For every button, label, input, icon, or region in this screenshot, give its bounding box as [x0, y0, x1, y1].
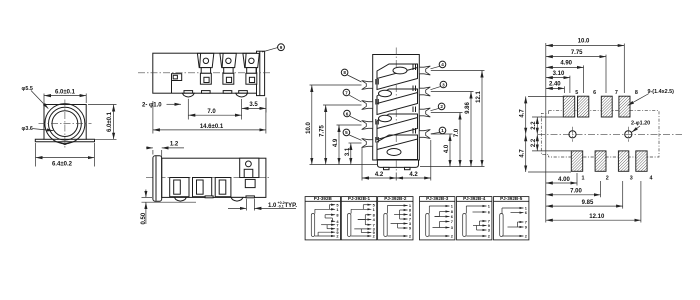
svg-text:2: 2	[440, 104, 443, 109]
svg-text:10.0: 10.0	[306, 122, 312, 134]
svg-text:10.0: 10.0	[578, 39, 590, 45]
pin 6 (left)	[362, 121, 373, 130]
label φ5.5 leader	[31, 91, 48, 109]
svg-text:4: 4	[441, 62, 444, 67]
svg-text:-0.1: -0.1	[278, 205, 284, 209]
dimension 4.90 line	[546, 66, 584, 68]
svg-text:PJ-392B-4: PJ-392B-4	[463, 196, 486, 201]
dimension 4.2 left line	[362, 177, 396, 179]
dimension 2.2 lower line	[536, 134, 538, 151]
dimension 6.0±0.1 top extension lines	[43, 94, 45, 104]
svg-text:2.40: 2.40	[549, 82, 561, 88]
svg-text:5: 5	[345, 130, 348, 135]
pin 8 (left)	[362, 81, 373, 90]
dimension 12.10 line	[546, 219, 641, 221]
svg-text:4.0: 4.0	[444, 144, 450, 153]
svg-text:1.0: 1.0	[268, 203, 277, 209]
hole left φ1.20	[569, 127, 576, 142]
dimension 1.0 TYP arrows	[228, 207, 246, 209]
svg-text:2.2: 2.2	[531, 138, 537, 147]
dimension 3.1 line	[350, 143, 352, 165]
dimension 4.7 lower line	[525, 134, 527, 172]
top view bottom notch 3	[223, 91, 232, 94]
dimension 4.00 line	[546, 182, 577, 184]
front view bottom key tab	[59, 142, 72, 145]
pad 7	[601, 96, 612, 117]
svg-text:6.0±0.1: 6.0±0.1	[107, 111, 113, 132]
side view small block below terminal	[245, 179, 255, 187]
svg-text:4.00: 4.00	[558, 177, 570, 183]
pcb bottom dims extension lines	[577, 173, 641, 223]
schematic box PJ-392B-2	[378, 196, 413, 240]
dimension 7.00 line	[546, 194, 601, 196]
side view foot left	[174, 197, 186, 201]
bottom view cap feet	[384, 167, 390, 169]
pcb outline left steps	[541, 111, 548, 157]
dimension 2.2 upper line	[536, 117, 538, 134]
bottom view left dimension extensions	[310, 85, 378, 165]
pin 2 (right)	[419, 108, 430, 117]
svg-text:7: 7	[345, 90, 348, 95]
svg-text:1.2: 1.2	[170, 142, 179, 148]
dimension 6.0±0.1 top line	[44, 95, 86, 97]
svg-text:4.7: 4.7	[520, 149, 526, 158]
svg-text:7.75: 7.75	[571, 50, 583, 56]
svg-text:8: 8	[635, 90, 638, 96]
svg-text:9.85: 9.85	[582, 200, 594, 206]
svg-text:6: 6	[346, 111, 349, 116]
dimension 4.9 line	[338, 125, 340, 165]
svg-text:PJ-392B-2: PJ-392B-2	[384, 196, 407, 201]
schematic box PJ-392B	[305, 196, 340, 240]
dimension 10.0 line	[311, 85, 313, 165]
svg-text:3.5: 3.5	[249, 102, 258, 108]
dimension 3.10 line	[546, 77, 570, 79]
circled number 1 with leader	[431, 127, 446, 134]
top view terminal 3	[243, 53, 259, 84]
svg-text:7.0: 7.0	[207, 109, 216, 115]
pin 7 (left)	[362, 101, 373, 110]
bottom view pin root ticks right	[413, 65, 416, 134]
bottom view right dimension extensions	[420, 71, 485, 167]
svg-text:7.00: 7.00	[570, 189, 582, 195]
bottom view contact bar 2	[377, 89, 418, 115]
svg-text:4.2: 4.2	[375, 172, 384, 178]
front view mounting flange	[35, 139, 94, 142]
top view bottom notch 4	[239, 91, 248, 94]
circled number 3 with leader	[431, 81, 447, 90]
svg-text:2: 2	[606, 176, 609, 182]
side view window 2	[193, 178, 212, 197]
dimension 1.2 line and arrows	[146, 147, 153, 149]
circled number 4 with leader	[431, 61, 446, 69]
svg-text:14.6±0.1: 14.6±0.1	[200, 124, 224, 130]
pin 1 (right)	[419, 130, 430, 139]
side view stub 1	[205, 196, 213, 198]
schematic box PJ-392B-4	[457, 196, 492, 240]
dimension 0.50 extension lines	[142, 196, 153, 198]
pad 3	[618, 151, 628, 171]
svg-text:φ5.5: φ5.5	[22, 86, 33, 92]
svg-text:1: 1	[582, 176, 585, 182]
dimension 0.50 arrows	[145, 190, 147, 198]
bottom view body	[373, 55, 420, 161]
pad 1	[571, 151, 582, 171]
side view centerline	[146, 177, 271, 179]
side view cap inner edge line	[155, 156, 157, 201]
svg-text:7.0: 7.0	[454, 128, 460, 137]
svg-text:4.90: 4.90	[560, 61, 572, 67]
svg-text:2-φ1.20: 2-φ1.20	[631, 121, 650, 127]
svg-text:3.10: 3.10	[553, 71, 565, 77]
top view bottom notch 1	[184, 91, 193, 94]
dimension 7.0 line	[188, 114, 241, 116]
dimension 1.2 extension	[152, 150, 154, 155]
svg-text:4.9: 4.9	[333, 138, 339, 147]
dimension 6.4±0.2 bottom line	[36, 157, 95, 159]
pcb left reference line	[545, 43, 547, 223]
bottom view contact bar 3	[377, 114, 418, 140]
top view rear cap inner line	[259, 51, 261, 95]
svg-text:TYP.: TYP.	[285, 203, 298, 209]
bottom view contact bar 4	[377, 135, 418, 160]
top view mounting peg right	[236, 93, 248, 97]
pad 8	[619, 96, 630, 117]
dimension 14.6±0.1 extension lines	[152, 101, 154, 134]
dimension 6.0±0.1 right line	[113, 105, 115, 140]
dimension 1.0 TYP extension lines	[245, 199, 247, 211]
dimension 4.0 line	[449, 134, 451, 167]
front view barrel middle circle	[49, 107, 82, 140]
svg-text:PJ-392B: PJ-392B	[314, 196, 333, 201]
svg-text:2- φ1.0: 2- φ1.0	[142, 103, 162, 109]
svg-text:4.7: 4.7	[520, 109, 526, 118]
dimension 10.0 line	[546, 45, 625, 47]
svg-text:6: 6	[593, 90, 596, 96]
label 9-(1.4x2.5)	[628, 89, 675, 105]
top view bottom notch 2	[202, 91, 211, 94]
dimension 3.5 extension line	[265, 98, 267, 113]
dimension 4.2 right line	[396, 177, 431, 179]
bottom view sleeve end cap	[377, 160, 418, 167]
schematic box PJ-392B-3	[420, 196, 455, 240]
side view foot right	[231, 197, 243, 201]
svg-text:8: 8	[343, 70, 346, 75]
top view left latch detail	[172, 74, 182, 94]
circled number 8 with leader	[341, 69, 361, 82]
svg-text:3: 3	[630, 176, 633, 182]
svg-text:7: 7	[451, 219, 453, 224]
svg-text:1: 1	[441, 128, 444, 133]
dimension 14.6±0.1 line	[153, 129, 266, 131]
dimension 2.40 line	[546, 87, 565, 89]
top view terminal 1	[197, 53, 213, 84]
dimension 7.75 line	[325, 105, 327, 165]
svg-text:6.4±0.2: 6.4±0.2	[52, 161, 73, 167]
circled number 5 with leader	[343, 129, 361, 140]
svg-text:PJ-392B-3: PJ-392B-3	[426, 196, 449, 201]
svg-text:φ3.6: φ3.6	[22, 126, 33, 132]
front view barrel outer circle	[45, 104, 85, 144]
dimension 4.7 upper line	[525, 96, 527, 134]
side view window 3	[215, 178, 231, 197]
dimension 6.0±0.1 right extension lines	[88, 104, 117, 106]
pcb 2.2/2.2 extension lines	[532, 117, 571, 151]
pin 3 (right)	[419, 87, 430, 96]
label 2-φ1.20	[631, 121, 650, 133]
svg-text:2.2: 2.2	[531, 121, 537, 130]
front view horizontal centerline	[39, 123, 92, 125]
bottom view contact bar 1	[377, 64, 418, 90]
bottom view pin root ticks left	[376, 79, 379, 143]
dimension 7.0 line	[459, 113, 461, 167]
dimension 2-φ1.0 arrow	[167, 103, 182, 105]
svg-text:9-(1.4x2.5): 9-(1.4x2.5)	[648, 89, 675, 95]
side view main body	[162, 158, 266, 197]
circled number 2 with leader	[431, 103, 445, 111]
side view stub 2	[246, 196, 254, 198]
hole right φ1.20	[625, 127, 632, 142]
schematic box PJ-392B-5	[494, 196, 529, 240]
pad 5	[563, 96, 574, 117]
label φ3.6 leader	[33, 129, 53, 131]
svg-text:12.1: 12.1	[476, 91, 482, 103]
dimension 4.2 4.2 extension lines	[362, 140, 431, 181]
pin 4 (right)	[419, 66, 430, 75]
pad 2	[595, 151, 606, 171]
top view centerline	[138, 72, 272, 74]
circled number 6 with leader	[344, 110, 362, 122]
svg-text:3.1: 3.1	[345, 147, 351, 156]
dimension 7.75 line	[546, 56, 606, 58]
dimension 9.86 line	[470, 92, 472, 167]
top view body	[153, 53, 257, 93]
svg-text:PJ-392B-1: PJ-392B-1	[348, 196, 371, 201]
top view mounting peg left	[182, 93, 194, 97]
svg-text:7.75: 7.75	[320, 125, 326, 137]
dimension 12.1 line	[481, 71, 483, 167]
pcb outline top edge	[549, 111, 660, 157]
svg-text:3: 3	[442, 82, 445, 87]
svg-text:12.10: 12.10	[589, 214, 605, 220]
svg-text:7: 7	[615, 90, 618, 96]
top dims extension lines	[564, 44, 624, 94]
front view vertical centerline	[64, 100, 66, 148]
side view top-right terminal block	[240, 158, 259, 177]
top view terminal 2	[220, 53, 236, 84]
pcb left 4.7/4.7 extension lines	[528, 96, 571, 172]
front view barrel inner circle	[52, 111, 78, 137]
circled number 7 with leader	[343, 89, 361, 102]
svg-text:4.2: 4.2	[409, 172, 418, 178]
leader to part number 9	[262, 48, 278, 52]
pcb main centerline	[538, 133, 682, 135]
pad 6	[578, 96, 589, 117]
schematic box PJ-392B-1	[341, 196, 376, 240]
dimension 3.5 line	[242, 107, 266, 109]
svg-text:0.50: 0.50	[141, 212, 147, 224]
pad 4	[636, 151, 647, 171]
side view window 1	[170, 178, 189, 197]
svg-text:4: 4	[650, 176, 653, 182]
front view body square	[44, 105, 86, 140]
svg-text:6.0±0.1: 6.0±0.1	[55, 90, 76, 96]
svg-text:PJ-392B-5: PJ-392B-5	[500, 196, 523, 201]
pin 5 (left)	[362, 139, 373, 148]
side view front cap	[153, 156, 162, 201]
svg-text:9.86: 9.86	[465, 102, 471, 114]
circled number 9	[278, 44, 285, 51]
dimension 7.0 extension lines	[187, 99, 189, 120]
svg-text:5: 5	[575, 90, 578, 96]
dimension 6.4±0.2 bottom extension lines	[35, 143, 37, 167]
top view rear end cap	[257, 51, 265, 95]
svg-text:9: 9	[280, 45, 283, 50]
dimension 9.85 line	[546, 205, 623, 207]
bottom view vertical centerline	[395, 48, 397, 173]
